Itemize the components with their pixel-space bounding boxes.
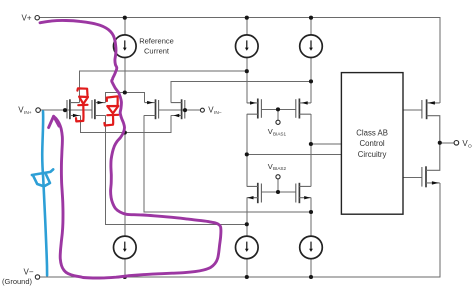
svg-text:BIAS1: BIAS1 [273,131,286,136]
wire B: T4 drain to node above T6 [171,81,311,102]
wire C: T3 drain to node below T8 [144,116,311,213]
wire VBIAS2 stub [277,179,279,192]
node wire D end [245,222,249,226]
wire VBIAS1 stub [277,109,279,120]
wire A: T1 drain to node above T5 [80,71,247,102]
arrows inside top current sources [123,40,313,50]
terminal VBIAS2 [276,175,280,179]
node wire C end [309,210,313,214]
annotation: purple current path trace [40,20,221,278]
wire P-pair source tail [105,93,144,103]
svg-text:V: V [268,162,273,171]
wire CS3 feed from rail [310,18,312,103]
current source CS2 [236,35,259,58]
transistor T6 (upper cascode right) [296,99,311,119]
current source CS1 (reference) [114,35,137,58]
transistor T8 (lower cascode right) [296,183,311,203]
wire row3 gates [261,191,295,193]
wire T7 source to CS5 [246,198,248,277]
wire T6 source/drain vertical [310,114,312,186]
terminal VO [454,141,459,146]
annotation: blue diode line over VIN+ to ground [32,111,53,275]
current source CS6 (tail bottom) [114,236,137,259]
node wire B end [309,79,313,83]
wire N-pair source tail [80,116,171,133]
svg-text:V−: V− [24,267,34,276]
wire V+ top rail [39,18,439,103]
wire CS2 feed from rail [246,18,248,103]
svg-text:Control: Control [360,139,385,148]
current sources [114,35,323,259]
transistor T7 (lower cascode left) [247,183,262,203]
annotation: purple arrowhead at VIN+ [49,116,59,127]
arrows inside bottom current sources [123,242,313,252]
wire tail to CS6 [124,133,126,277]
node output VO [438,141,442,145]
svg-text:Current: Current [144,47,170,56]
transistor T3 (input, VIN-) [144,99,159,119]
node top rail at CS2 [245,16,249,20]
wire T6 drain to Class AB box [311,143,342,145]
terminal V+ [35,16,39,20]
transistor T1 (input, VIN+) [67,99,80,119]
transistors [67,99,440,204]
svg-text:IN+: IN+ [24,110,32,116]
node VIN+ gate junction [63,108,67,112]
annotation: red diode D2 over T2 drain [104,96,118,125]
node wire A end [245,69,249,73]
annotation: red diode D1 over T1 drain [76,88,88,121]
current source CS3 [300,35,323,58]
node bottom rail at CS6 [123,275,127,279]
wire T5 source/drain vertical [246,114,248,186]
wire T10 gate from box [403,176,422,178]
svg-text:(Ground): (Ground) [2,277,33,286]
svg-text:Circuitry: Circuitry [358,150,387,159]
transistor T10 (output NMOS) [422,143,440,188]
node T5 drain tap [245,152,249,156]
wire D: T2 drain to node below T7 [106,116,247,225]
wire VIN- gate [159,109,201,111]
svg-text:Reference: Reference [139,36,174,45]
node VBIAS1 [276,107,280,111]
wire V- bottom rail [40,183,440,277]
node top rail at CS1 [123,16,127,20]
wire T5 drain to Class AB box [247,153,342,155]
wire row2 gates [261,108,295,110]
Class AB control box U1 [341,73,403,215]
node VBIAS2 [276,190,280,194]
wire output node to VO [440,142,455,144]
svg-text:V: V [268,127,273,136]
current source CS5 [236,236,259,259]
terminal VIN+ [36,108,41,113]
terminal V- [35,275,39,279]
node T6 drain tap [309,142,313,146]
node VIN- gate junction [183,108,187,112]
svg-text:IN−: IN− [214,110,222,116]
svg-text:BIAS2: BIAS2 [273,166,286,171]
terminal VIN- [200,108,204,112]
wire VIN+ gate [40,109,92,111]
node top rail at CS3 [309,16,313,20]
wire T9 gate from box [403,109,422,111]
svg-text:Class AB: Class AB [356,129,388,138]
wire T8 source to CS4 [310,198,312,277]
node P tail [123,90,127,94]
wire CS1 feed from rail [124,18,126,93]
transistor T9 (output PMOS) [422,99,440,143]
terminal VBIAS1 [276,120,280,124]
svg-text:O: O [468,143,472,149]
node bottom rail at CS4 [309,275,313,279]
node N tail [123,131,127,135]
transistor T5 (upper cascode left) [247,99,262,119]
current source CS4 [300,236,323,259]
transistor T4 (input, VIN-) [171,99,185,119]
svg-text:V+: V+ [22,14,32,23]
node bottom rail at CS5 [245,275,249,279]
transistor T2 (input, VIN+ mirror) [92,99,106,119]
